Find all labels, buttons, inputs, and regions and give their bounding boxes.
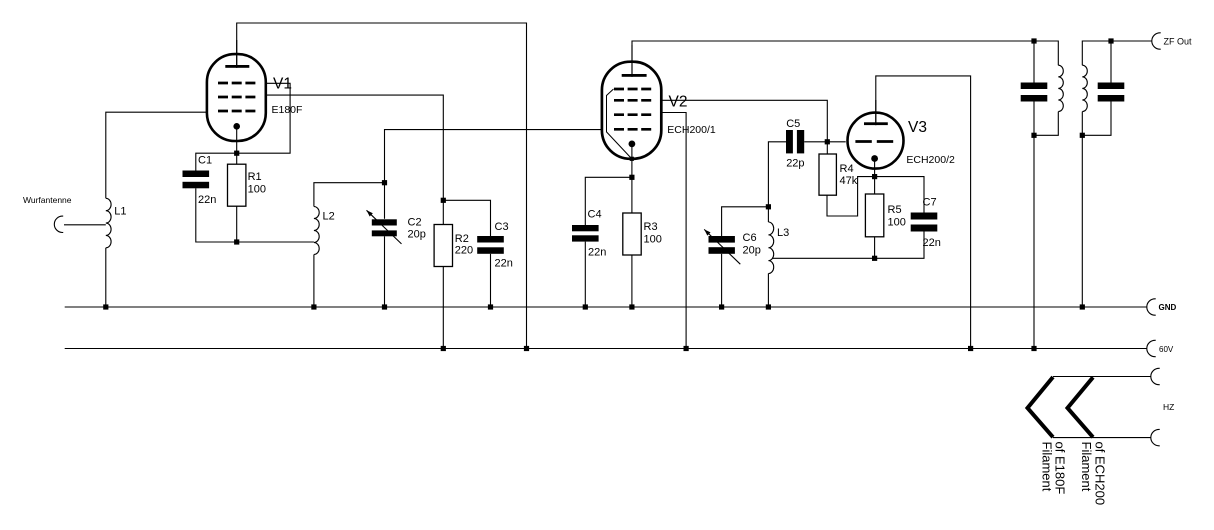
svg-text:Filament: Filament: [1040, 442, 1055, 492]
junction V1 cathode node: [234, 151, 239, 156]
wire: V2 cathode node to C4 top: [585, 177, 632, 225]
tube V2 grid 1: [614, 88, 651, 91]
svg-text:L1: L1: [114, 206, 126, 218]
junction C6-GND: [719, 304, 724, 309]
tube V1 grid 1: [218, 82, 255, 85]
tube V1 anode plate: [225, 65, 249, 68]
junction V3 anode-60V: [968, 346, 973, 351]
svg-text:R2: R2: [455, 233, 469, 245]
svg-text:Wurfantenne: Wurfantenne: [23, 195, 72, 205]
svg-text:C6: C6: [743, 232, 757, 244]
wire: node A up to V2 grid4: [385, 130, 602, 183]
junction L2-GND: [311, 304, 316, 309]
wire: C7 bottom to R5 bottom node: [875, 232, 924, 259]
inductor L3: [768, 222, 773, 274]
svg-text:47k: 47k: [840, 175, 858, 187]
junction node K1: [234, 239, 239, 244]
tube V1 cathode: [233, 123, 240, 130]
svg-text:L2: L2: [323, 211, 335, 223]
wire: V2 grid3 to 60V rail: [661, 113, 686, 349]
tube V1 grid 3: [218, 110, 255, 113]
junction node A: [382, 180, 387, 185]
wire: node A to C2 top: [384, 183, 386, 219]
svg-text:C7: C7: [923, 197, 937, 209]
tube V3 grid: [855, 140, 893, 143]
capacitor C4: [572, 225, 599, 231]
wire: L3 top stem: [767, 207, 769, 222]
junction C3-GND: [488, 304, 493, 309]
wire: V1 grid3 to L1 top: [106, 112, 207, 198]
capacitor IF primary tuning: [1021, 83, 1048, 90]
svg-text:Filament: Filament: [1079, 442, 1094, 492]
capacitor C7: [911, 213, 938, 220]
svg-text:ECH200/1: ECH200/1: [667, 124, 716, 136]
wire: L1 bottom to GND bus: [105, 248, 107, 307]
svg-text:V3: V3: [908, 119, 927, 136]
terminal 60V: [1147, 340, 1156, 356]
wire: R2 top stem: [442, 200, 444, 224]
svg-text:R4: R4: [840, 163, 854, 175]
terminal ZF Out: [1152, 33, 1161, 49]
svg-text:C4: C4: [588, 209, 602, 221]
wire: IF primary cap branch lower to 60V rail: [1033, 102, 1035, 349]
junction R5/C7/L3 node: [872, 256, 877, 261]
wire: IF primary cap branch upper: [1033, 41, 1035, 83]
svg-text:R5: R5: [888, 204, 902, 216]
wire: R4 top stem: [826, 142, 828, 154]
wire: L3 tap to R5 bottom node: [772, 257, 875, 259]
wire: R4 bottom to V3 cathode node: [827, 177, 875, 216]
svg-text:20p: 20p: [408, 229, 426, 241]
tube V1 anode stem: [236, 40, 238, 68]
wire: C5 left plate to L3 node: [768, 142, 786, 207]
junction IF primary bottom: [1031, 133, 1036, 138]
tube V1 envelope: [207, 54, 266, 141]
tube V2 cathode: [629, 141, 636, 148]
svg-text:C2: C2: [408, 217, 422, 229]
junction IF secondary top: [1108, 38, 1113, 43]
inductor L1: [106, 198, 111, 248]
tube V3 envelope: [848, 113, 904, 169]
wire: L2 top to node A: [314, 183, 385, 207]
capacitor IF secondary tuning: [1098, 83, 1125, 90]
svg-text:20p: 20p: [743, 245, 761, 257]
svg-text:HZ: HZ: [1163, 402, 1174, 412]
inductor IF transformer primary: [1058, 65, 1063, 111]
wire: V1 cathode stem: [236, 126, 238, 153]
junction R2-60V: [441, 346, 446, 351]
svg-text:C1: C1: [198, 155, 212, 167]
junction V3 cathode node: [872, 174, 877, 179]
wire: cathode node to C7 top: [875, 177, 924, 213]
capacitor C6 (trimmer): [709, 236, 735, 243]
capacitor C3: [477, 236, 504, 243]
tube V2 grid 3: [614, 113, 651, 116]
capacitor C5: [786, 130, 793, 153]
capacitor C1: [183, 171, 210, 178]
svg-text:C3: C3: [495, 221, 509, 233]
junction IF primary top: [1031, 38, 1036, 43]
wire: node K1 to L2: [237, 241, 314, 243]
wire: node B to V3 grid: [827, 141, 845, 143]
svg-text:22n: 22n: [495, 258, 513, 270]
wire: heater line bottom: [1053, 437, 1151, 439]
svg-text:100: 100: [644, 234, 662, 246]
resistor R5: [865, 194, 883, 237]
junction C4-GND: [583, 304, 588, 309]
junction C5/R4 node B: [825, 139, 830, 144]
wire: R2 bottom to 60V rail: [442, 267, 444, 349]
wire: C4 bottom to GND bus: [584, 242, 586, 307]
svg-text:22n: 22n: [923, 237, 941, 249]
filament of E180F symbol: [1028, 377, 1054, 437]
wire: R5 bottom stem: [874, 237, 876, 258]
wire: IF primary bottom: [1034, 112, 1058, 136]
svg-text:R1: R1: [248, 171, 262, 183]
tube V2 anode stem: [631, 45, 633, 77]
svg-text:C5: C5: [786, 118, 800, 130]
junction L1-GND: [103, 304, 108, 309]
wire: R5 top stem: [874, 177, 876, 194]
wire: L2 bottom to GND bus: [313, 255, 315, 308]
svg-text:22n: 22n: [198, 194, 216, 206]
svg-text:ECH200/2: ECH200/2: [906, 154, 955, 166]
wire: R1 bottom stem: [236, 206, 238, 242]
tube V3 anode plate: [864, 122, 888, 125]
svg-text:100: 100: [888, 217, 906, 229]
wire: IF secondary cap branch upper: [1110, 41, 1112, 83]
wire: L3 node to C6 top: [722, 207, 769, 236]
inductor L2: [314, 207, 319, 255]
junction L3-GND: [766, 304, 771, 309]
svg-text:L3: L3: [777, 227, 789, 239]
terminal GND: [1147, 299, 1156, 315]
wire: V2 anode to IF transformer primary: [632, 41, 1058, 77]
wire: V1 grid1 to cathode node: [237, 83, 290, 153]
junction V2 cathode lead: [630, 157, 634, 161]
terminal Hz bottom: [1151, 429, 1160, 445]
svg-text:220: 220: [455, 245, 473, 257]
svg-text:100: 100: [248, 184, 266, 196]
wire: IF secondary cap branch lower: [1082, 102, 1111, 136]
svg-text:22n: 22n: [588, 247, 606, 259]
capacitor C2 (trimmer): [372, 219, 397, 225]
resistor R3: [623, 213, 641, 255]
resistor R4: [819, 154, 836, 195]
junction V2 cathode node: [629, 175, 634, 180]
wire: R3 top stem: [631, 177, 633, 213]
wire: C3 bottom to GND bus: [490, 254, 492, 307]
junction R2/C3 node: [441, 198, 446, 203]
wire: R3 bottom to GND bus: [631, 255, 633, 307]
wire: R2 node to C3 top: [443, 200, 490, 236]
svg-text:V1: V1: [273, 75, 292, 92]
junction L3/C6 node: [766, 204, 771, 209]
terminal Hz top: [1151, 368, 1160, 384]
junction IF-GND: [1080, 304, 1085, 309]
node GND bus: [65, 306, 1147, 308]
junction R3-GND: [629, 304, 634, 309]
wire: V2 cathode stem: [631, 144, 633, 177]
tube V3 anode stem: [875, 100, 877, 125]
tube V2 grid 4: [614, 128, 651, 131]
junction IF primary-60V: [1031, 346, 1036, 351]
svg-text:22p: 22p: [786, 158, 804, 170]
tube V2 grid 2: [614, 99, 651, 102]
wire: antenna lead: [64, 224, 106, 226]
terminal Wurfantenne: [54, 216, 63, 232]
tube V2 internal grid lead: [607, 89, 632, 159]
svg-text:60V: 60V: [1159, 345, 1174, 354]
wire: V2 grid2 to C5 node: [661, 100, 827, 142]
wire: C5 right plate to node B: [804, 141, 827, 143]
wire: V3 anode to 60V rail: [876, 76, 971, 349]
wire: C2 bottom to GND bus: [384, 236, 386, 307]
svg-text:V2: V2: [669, 94, 688, 111]
wire: cathode node to C1 top: [196, 153, 237, 170]
resistor R2: [434, 225, 452, 267]
junction C2-GND: [382, 304, 387, 309]
wire: V1 anode to 60V rail: [237, 23, 527, 349]
wire: V3 cathode stem: [874, 159, 876, 177]
wire: R1 top stem: [236, 153, 238, 164]
svg-text:GND: GND: [1159, 303, 1177, 312]
node 60V bus: [65, 348, 1147, 350]
svg-text:ZF Out: ZF Out: [1164, 36, 1193, 46]
tube V1 grid 2: [218, 96, 255, 99]
tube V2 anode plate: [622, 74, 647, 77]
wire: IF secondary top to ZF Out: [1082, 41, 1152, 65]
filament of ECH200 symbol: [1068, 377, 1094, 437]
svg-text:R3: R3: [644, 221, 658, 233]
junction IF secondary bottom: [1080, 133, 1085, 138]
resistor R1: [228, 164, 246, 206]
wire: heater line top: [1053, 376, 1151, 378]
wire: L3 bottom to GND bus: [767, 274, 769, 308]
tube V2 envelope: [602, 62, 661, 159]
wire: C1 bottom to node K1: [196, 188, 237, 242]
wire: V1 grid2 to R2 node: [266, 95, 444, 200]
junction V1 anode-60V: [524, 346, 529, 351]
inductor IF transformer secondary: [1082, 65, 1087, 111]
svg-text:E180F: E180F: [272, 104, 303, 116]
wire: IF secondary bottom to GND bus: [1081, 112, 1083, 307]
junction V2 grid3-60V: [684, 346, 689, 351]
wire: C6 bottom to GND bus: [721, 254, 723, 307]
tube V3 cathode: [871, 155, 878, 162]
